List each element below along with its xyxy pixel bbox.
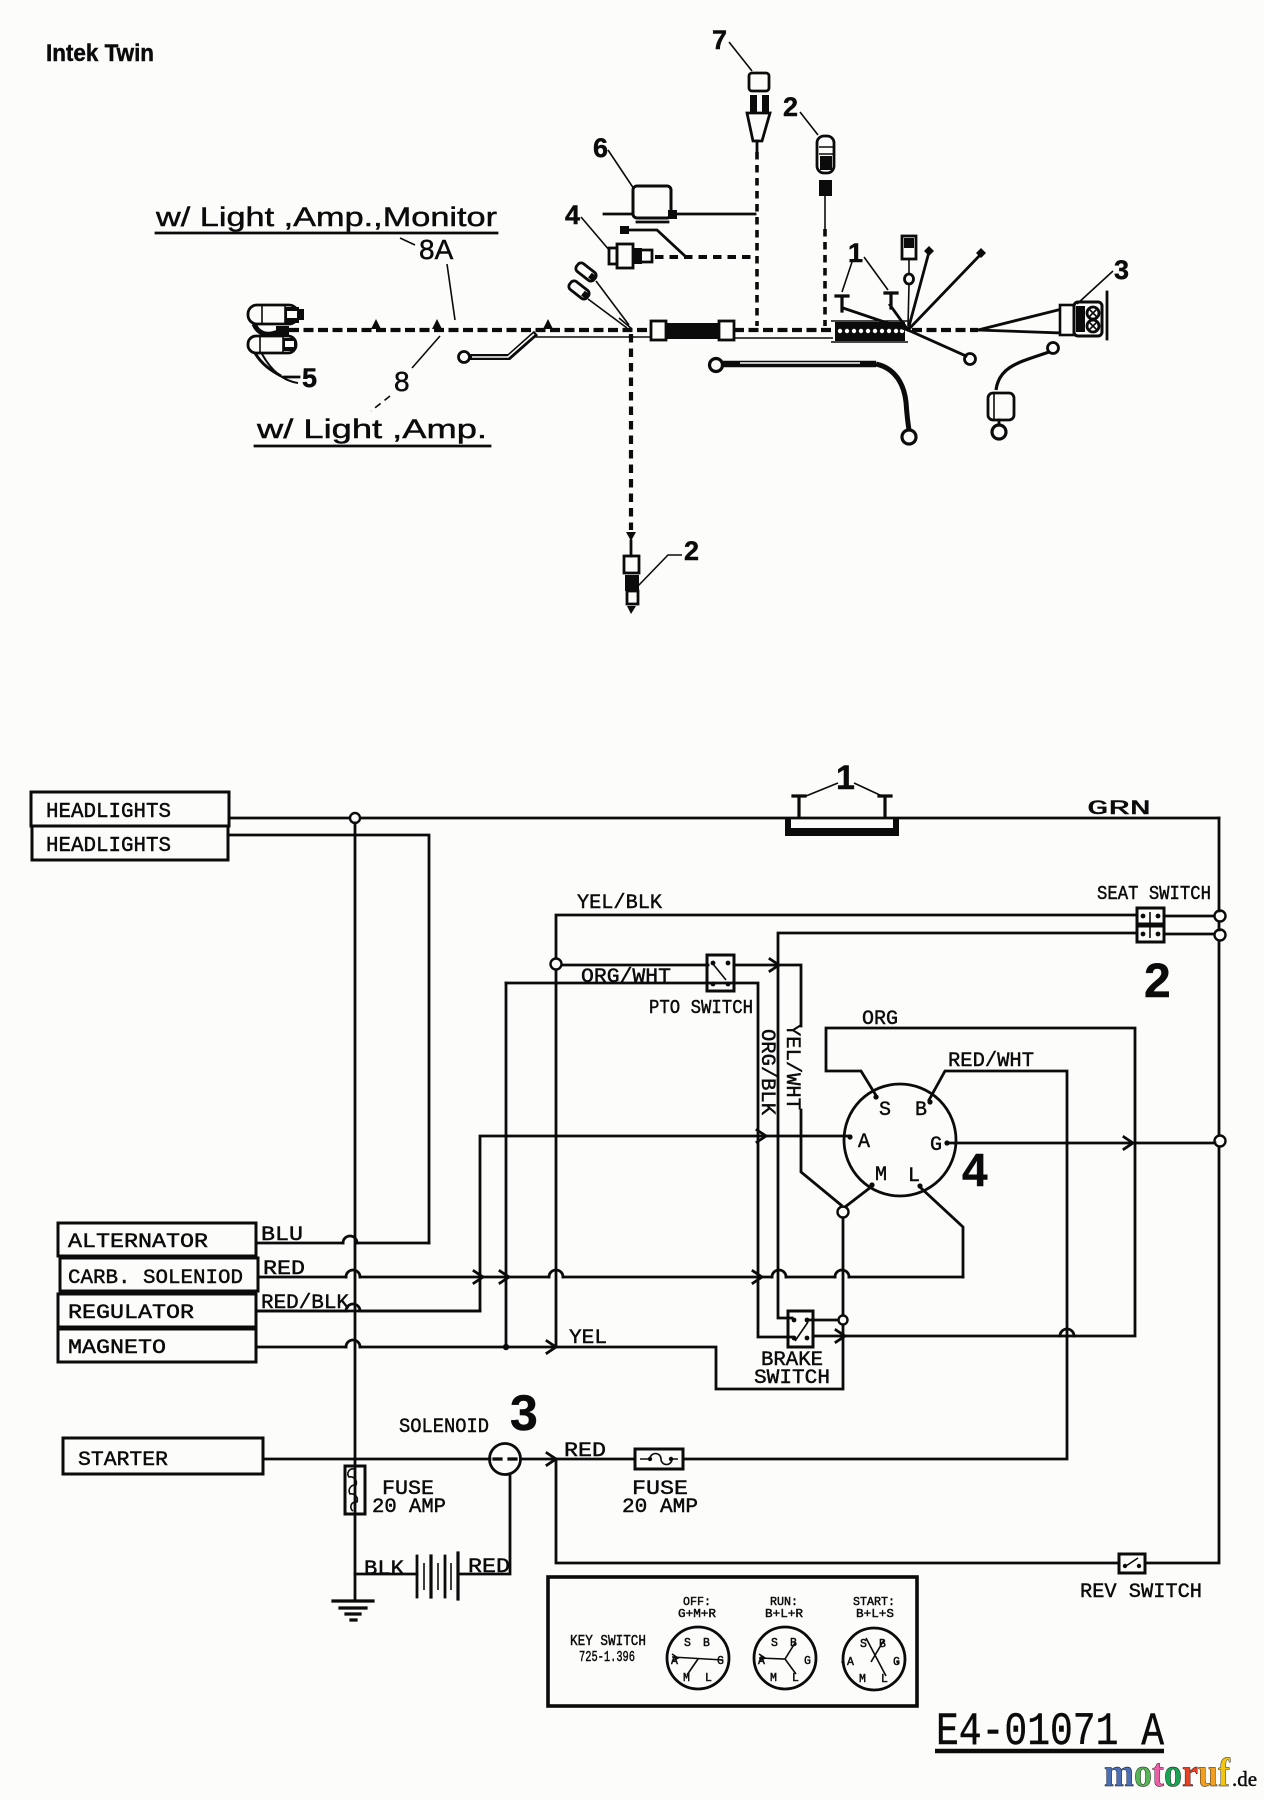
svg-text:20 AMP: 20 AMP <box>372 1496 446 1519</box>
key switch circle 4 <box>844 1084 956 1196</box>
node circle seat bottom <box>1215 930 1226 941</box>
svg-text:L: L <box>908 1165 920 1188</box>
pto switch <box>707 955 734 991</box>
box CARB. SOLENIOD <box>60 1258 258 1291</box>
svg-text:S: S <box>860 1638 867 1651</box>
small spade terminals pair <box>574 261 598 283</box>
svg-text:STARTER: STARTER <box>78 1449 168 1472</box>
box REGULATOR <box>58 1294 256 1327</box>
svg-text:4: 4 <box>962 1144 988 1196</box>
key switch pin S <box>873 1094 878 1099</box>
svg-text:2: 2 <box>684 536 699 566</box>
svg-text:B+L+S: B+L+S <box>856 1607 894 1621</box>
hop BLU over ground bus <box>343 1236 357 1243</box>
svg-text:REV SWITCH: REV SWITCH <box>1080 1581 1202 1604</box>
svg-text:SWITCH: SWITCH <box>754 1367 830 1390</box>
wire ORG/WHT from junction to PTO <box>561 964 708 967</box>
svg-text:Intek Twin: Intek Twin <box>46 40 154 67</box>
svg-text:7: 7 <box>712 25 727 55</box>
arrow connector RED at solenoid <box>547 1453 556 1465</box>
wire dashed drop from connector 2 upper <box>823 229 827 326</box>
svg-text:HEADLIGHTS: HEADLIGHTS <box>46 835 171 858</box>
wire from spade upper to harness <box>254 324 278 334</box>
leader 4 <box>581 217 610 251</box>
branch vertical dashed to connector 2 lower <box>619 318 632 329</box>
connector 5 spade upper <box>248 305 298 324</box>
box STARTER <box>63 1438 263 1474</box>
wire harness dashed right of junction <box>912 328 978 332</box>
svg-text:ALTERNATOR: ALTERNATOR <box>68 1231 208 1254</box>
ring terminal jog wire <box>459 352 470 363</box>
arrow connector on brake lower wire <box>836 1330 845 1342</box>
fan wires to connector 3 <box>978 309 1062 333</box>
node circle G at right bus <box>1215 1136 1226 1147</box>
battery tray item 1 <box>785 819 899 836</box>
wire dashed drop from connector 7 <box>755 152 759 326</box>
svg-text:2: 2 <box>1144 955 1171 1008</box>
svg-text:L: L <box>705 1672 712 1685</box>
wire solenoid down to battery positive <box>460 1475 510 1574</box>
harness loom section 1 <box>651 321 666 340</box>
wire rev line <box>556 1459 1119 1563</box>
dashed leader from 8 to caption <box>371 396 390 411</box>
seat switch <box>1137 908 1164 924</box>
svg-text:S: S <box>684 1637 691 1650</box>
svg-text:SOLENOID: SOLENOID <box>399 1416 489 1439</box>
wire GRN from headlights to right bus <box>229 817 1219 820</box>
wire starter to solenoid <box>263 1458 490 1461</box>
harness loom section 2 hatched <box>831 321 908 342</box>
hop YEL over ground bus <box>346 1340 360 1347</box>
brake switch <box>788 1311 813 1347</box>
long wire with ring terminals <box>710 359 723 372</box>
svg-text:S: S <box>879 1099 891 1122</box>
wire YEL/BLK <box>556 915 1137 1347</box>
svg-text:M: M <box>770 1672 777 1685</box>
svg-text:8A: 8A <box>419 234 454 265</box>
diamond tips <box>924 246 986 258</box>
svg-text:B: B <box>879 1638 886 1651</box>
svg-text:G: G <box>930 1134 942 1157</box>
svg-text:motoruf: motoruf <box>1104 1750 1231 1795</box>
rev switch <box>1119 1554 1145 1573</box>
svg-text:A: A <box>847 1656 854 1669</box>
stub wire with square terminal <box>620 226 629 234</box>
node circle M <box>838 1207 849 1218</box>
node circle seat top <box>1215 911 1226 922</box>
svg-text:B: B <box>703 1637 710 1650</box>
connector 4 <box>609 248 617 264</box>
svg-text:L: L <box>881 1673 888 1686</box>
wire seat switch to bus circles <box>1164 916 1215 934</box>
svg-text:G: G <box>717 1655 724 1668</box>
svg-text:M: M <box>683 1672 690 1685</box>
node junction at headlights <box>350 813 360 823</box>
wire bus at relay 6 <box>604 213 755 216</box>
svg-text:REGULATOR: REGULATOR <box>68 1302 194 1325</box>
ground symbol <box>333 1601 373 1620</box>
svg-text:2: 2 <box>783 92 798 122</box>
arrow connector on pto wire <box>770 959 779 971</box>
wire headlights2 to BLU bus <box>228 835 429 1243</box>
legend key switch box <box>548 1577 917 1706</box>
svg-text:725-1.396: 725-1.396 <box>579 1649 635 1666</box>
key switch pin M <box>869 1182 874 1187</box>
svg-text:YEL/WHT: YEL/WHT <box>780 1024 803 1110</box>
svg-text:RED: RED <box>263 1258 305 1281</box>
key switch pin A <box>847 1134 852 1139</box>
leader 2 upper <box>800 112 818 135</box>
pin T left <box>836 296 848 311</box>
svg-text:.de: .de <box>1232 1767 1257 1791</box>
arrow connector on A line <box>757 1130 766 1142</box>
wire from spade lower to label 5 <box>255 353 281 376</box>
fuse holder component <box>902 236 916 259</box>
node circle brake right <box>839 1316 848 1325</box>
vertical thin from ORG/WHT node down to YEL <box>555 970 557 1341</box>
svg-text:ORG/BLK: ORG/BLK <box>755 1029 778 1115</box>
svg-text:RED/BLK: RED/BLK <box>261 1292 349 1315</box>
right bus vertical <box>1145 818 1219 1563</box>
svg-text:3: 3 <box>1114 255 1129 285</box>
svg-text:S: S <box>771 1637 778 1650</box>
wire solenoid to fuse2 <box>521 1458 635 1461</box>
node junction circle ORG/WHT <box>551 959 562 970</box>
bolt pin left of item 1 <box>793 796 805 817</box>
connector 2 upper bullet <box>817 136 834 173</box>
key switch pin L <box>917 1183 922 1188</box>
svg-text:BLU: BLU <box>261 1224 303 1247</box>
svg-text:RED/WHT: RED/WHT <box>948 1050 1034 1073</box>
pin T right <box>885 293 897 308</box>
svg-text:1: 1 <box>848 238 863 268</box>
harness lower thin line <box>530 337 833 338</box>
wire BLU <box>256 1242 429 1245</box>
svg-text:M: M <box>859 1673 866 1686</box>
svg-text:6: 6 <box>593 133 608 163</box>
svg-text:BLK: BLK <box>364 1558 404 1581</box>
svg-text:20 AMP: 20 AMP <box>622 1496 698 1519</box>
harness clip marks <box>371 319 553 329</box>
svg-text:CARB. SOLENIOD: CARB. SOLENIOD <box>68 1267 243 1290</box>
svg-text:M: M <box>875 1164 887 1187</box>
wire harness dashed mid <box>734 328 838 332</box>
svg-text:PTO SWITCH: PTO SWITCH <box>649 997 753 1019</box>
wire ORG from S pin around to brake line <box>813 1028 1135 1336</box>
svg-text:SEAT SWITCH: SEAT SWITCH <box>1097 883 1211 905</box>
key switch pin G <box>944 1140 949 1145</box>
leader from 1 to right pin <box>854 783 882 796</box>
svg-text:HEADLIGHTS: HEADLIGHTS <box>46 801 171 824</box>
arrow connector on G line <box>1124 1137 1133 1149</box>
svg-text:B+L+R: B+L+R <box>765 1607 803 1621</box>
wire lower org branch <box>506 983 792 1337</box>
wire seat switch lower to pto bus <box>778 933 1137 1318</box>
pigtail with ring and sensor <box>1048 343 1059 354</box>
leader from 1 to left pin <box>806 783 838 796</box>
svg-text:1: 1 <box>836 759 855 797</box>
svg-text:YEL: YEL <box>569 1327 607 1350</box>
wire brake right top to node <box>807 1319 838 1322</box>
junction fan point rays <box>843 252 981 356</box>
svg-text:4: 4 <box>565 200 580 230</box>
leader 6 <box>608 150 634 189</box>
key switch pin B <box>927 1099 932 1104</box>
wire M to brake via node <box>843 1187 871 1389</box>
box HEADLIGHTS 1 <box>31 792 229 826</box>
wire ground bus vertical GRN <box>354 823 357 1599</box>
connector 7 <box>749 73 769 91</box>
solenoid circle <box>490 1444 521 1475</box>
box MAGNETO <box>58 1329 256 1362</box>
wire dashed from connector 4 <box>655 255 752 259</box>
wire L to RED line <box>921 1188 963 1277</box>
relay 6 <box>633 186 671 218</box>
svg-text:G+M+R: G+M+R <box>678 1607 716 1621</box>
wire RED carb solenoid to L drop <box>258 1276 963 1279</box>
svg-text:GRN: GRN <box>1087 798 1151 821</box>
separator plug <box>1060 305 1074 335</box>
svg-text:RED: RED <box>468 1556 510 1579</box>
bolt pin right of item 1 <box>879 796 891 817</box>
wire RED/WHT from B pin to lower fuse <box>683 1071 1067 1459</box>
junction dot YEL at org drop <box>503 1344 509 1350</box>
leader from 8 to harness <box>412 336 440 368</box>
vertical from lower org corner down to YEL <box>505 983 508 1344</box>
connector 5 spade lower <box>248 336 296 353</box>
wire after pto switch to YEL/WHT drop <box>734 965 841 1205</box>
svg-text:A: A <box>858 1131 870 1154</box>
svg-text:YEL/BLK: YEL/BLK <box>577 892 662 915</box>
box ALTERNATOR <box>58 1223 256 1256</box>
ring terminal A <box>965 354 976 365</box>
connector 3 <box>1074 302 1102 336</box>
svg-text:5: 5 <box>302 363 317 393</box>
fuse 1 <box>345 1466 365 1514</box>
svg-text:8: 8 <box>394 366 410 397</box>
battery <box>416 1556 419 1597</box>
wire A line to regulator <box>256 1136 848 1311</box>
hop of brake wire over RED/WHT vertical <box>1060 1329 1074 1336</box>
svg-text:RED: RED <box>564 1440 606 1463</box>
wire main harness dashed <box>289 328 652 332</box>
svg-text:w/ Light ,Amp.: w/ Light ,Amp. <box>256 414 487 444</box>
svg-text:w/ Light ,Amp.,Monitor: w/ Light ,Amp.,Monitor <box>155 202 497 232</box>
hops on RED wire <box>346 1270 849 1277</box>
svg-text:KEY SWITCH: KEY SWITCH <box>570 1633 646 1650</box>
wire battery negative to ground bus <box>355 1573 417 1576</box>
svg-text:G: G <box>804 1655 811 1668</box>
wire RED/BLK regulator <box>256 1310 480 1313</box>
connector 2 lower <box>624 556 639 573</box>
svg-text:ORG/WHT: ORG/WHT <box>581 966 671 989</box>
leader from 8A to harness <box>447 264 455 320</box>
svg-text:3: 3 <box>510 1385 538 1441</box>
svg-text:B: B <box>915 1099 927 1122</box>
box HEADLIGHTS 2 <box>32 826 228 860</box>
svg-text:MAGNETO: MAGNETO <box>68 1337 166 1360</box>
hop RED/BLK over ground bus <box>346 1304 360 1311</box>
harness pigtail start <box>276 326 289 335</box>
fuse 2 <box>635 1449 683 1469</box>
svg-text:ORG: ORG <box>862 1008 898 1031</box>
arrow connectors on RED wire <box>474 1271 762 1283</box>
leader 7 <box>729 42 752 71</box>
wire YEL magneto to brake bottom <box>256 1347 841 1389</box>
arrow connector on YEL <box>547 1341 556 1353</box>
wire G line to right bus <box>949 1142 1215 1145</box>
